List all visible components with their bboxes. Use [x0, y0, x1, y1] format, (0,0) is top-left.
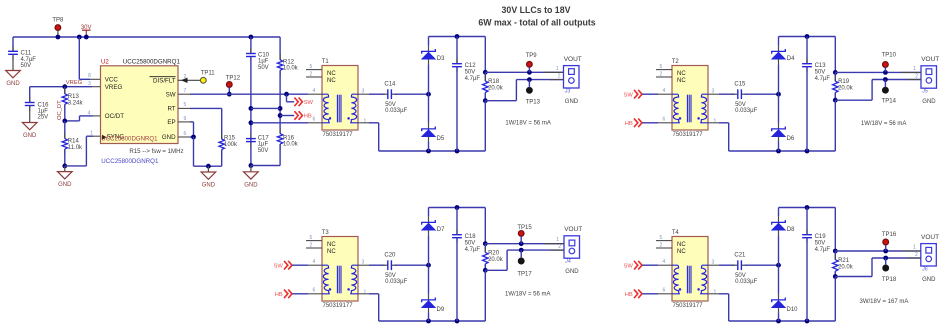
svg-text:100k: 100k: [224, 142, 238, 148]
svg-text:UCC25800DGNRQ1: UCC25800DGNRQ1: [101, 158, 159, 165]
svg-text:GND: GND: [922, 99, 936, 105]
svg-text:GND: GND: [58, 182, 72, 188]
svg-text:SW: SW: [623, 92, 633, 98]
svg-text:D4: D4: [787, 56, 795, 62]
svg-text:2: 2: [915, 252, 918, 258]
svg-text:4.7µF: 4.7µF: [465, 247, 481, 253]
svg-text:5: 5: [660, 235, 663, 241]
svg-text:2: 2: [310, 243, 313, 249]
svg-text:5: 5: [310, 64, 313, 70]
svg-text:C13: C13: [815, 63, 827, 69]
svg-text:1: 1: [364, 118, 367, 124]
svg-text:20.0k: 20.0k: [488, 86, 504, 92]
svg-text:DIS/FLT: DIS/FLT: [153, 78, 176, 85]
svg-text:1: 1: [913, 245, 916, 251]
svg-text:R20: R20: [488, 251, 500, 257]
svg-text:D6: D6: [787, 136, 795, 142]
svg-text:HB: HB: [625, 121, 633, 127]
svg-text:GND: GND: [244, 182, 258, 188]
svg-text:1µF: 1µF: [38, 109, 49, 115]
svg-text:D8: D8: [787, 227, 795, 233]
svg-text:TP15: TP15: [517, 225, 532, 231]
svg-text:3: 3: [362, 259, 365, 265]
svg-text:50V: 50V: [735, 273, 746, 279]
svg-text:1W/18V = 56 mA: 1W/18V = 56 mA: [861, 121, 907, 127]
svg-text:6: 6: [663, 288, 666, 294]
svg-text:TP9: TP9: [526, 53, 538, 59]
svg-text:50V: 50V: [21, 63, 32, 69]
svg-text:NC: NC: [327, 71, 336, 77]
svg-text:NC: NC: [677, 249, 686, 255]
svg-text:50V: 50V: [385, 273, 396, 279]
svg-text:VREG: VREG: [66, 80, 83, 86]
svg-text:HB: HB: [625, 292, 633, 298]
svg-text:TP16: TP16: [882, 232, 897, 238]
svg-text:4.7µF: 4.7µF: [815, 76, 831, 82]
svg-text:50V: 50V: [735, 102, 746, 108]
svg-text:TP8: TP8: [52, 18, 64, 24]
svg-text:3: 3: [712, 88, 715, 94]
svg-text:2: 2: [310, 72, 313, 78]
svg-text:50V: 50V: [385, 102, 396, 108]
svg-text:R15 --> fsw = 1MHz: R15 --> fsw = 1MHz: [129, 148, 183, 155]
svg-text:TP14: TP14: [882, 99, 897, 105]
svg-text:OC/DT: OC/DT: [105, 113, 124, 120]
svg-text:0.033µF: 0.033µF: [385, 108, 407, 114]
svg-text:HB: HB: [275, 292, 283, 298]
svg-text:OC_DT: OC_DT: [57, 100, 63, 120]
svg-text:VCC: VCC: [105, 77, 119, 84]
svg-text:1: 1: [90, 131, 93, 137]
svg-text:C18: C18: [465, 234, 477, 240]
svg-text:NC: NC: [677, 242, 686, 248]
svg-text:SW: SW: [166, 92, 176, 99]
svg-text:3: 3: [712, 259, 715, 265]
svg-text:750319177: 750319177: [323, 303, 354, 309]
svg-text:TP12: TP12: [226, 76, 241, 82]
svg-text:4: 4: [663, 88, 666, 94]
svg-text:VOUT: VOUT: [564, 56, 582, 63]
svg-text:8: 8: [88, 73, 91, 79]
svg-text:GND: GND: [162, 134, 176, 141]
svg-text:GND: GND: [23, 133, 37, 139]
svg-text:GND: GND: [922, 277, 936, 283]
svg-text:4.7µF: 4.7µF: [815, 247, 831, 253]
svg-text:C10: C10: [258, 52, 270, 58]
svg-text:750319177: 750319177: [673, 132, 704, 138]
svg-text:2: 2: [558, 244, 561, 250]
svg-text:J6: J6: [921, 267, 928, 273]
svg-text:D7: D7: [437, 227, 445, 233]
svg-text:1: 1: [714, 289, 717, 295]
svg-text:J4: J4: [564, 259, 571, 265]
svg-text:3: 3: [88, 81, 91, 87]
svg-text:GND: GND: [6, 81, 20, 87]
svg-text:TP11: TP11: [201, 70, 216, 76]
svg-text:T4: T4: [672, 230, 680, 236]
svg-text:4: 4: [88, 110, 91, 116]
svg-text:GND: GND: [565, 99, 579, 105]
svg-text:SW: SW: [304, 100, 314, 106]
svg-text:4: 4: [663, 259, 666, 265]
svg-text:D10: D10: [787, 307, 799, 313]
svg-text:4: 4: [313, 88, 316, 94]
svg-text:D3: D3: [437, 56, 445, 62]
svg-text:20.0k: 20.0k: [838, 264, 854, 270]
svg-text:750319177: 750319177: [323, 132, 354, 138]
svg-text:NC: NC: [677, 71, 686, 77]
svg-text:25V: 25V: [38, 115, 49, 121]
svg-text:NC: NC: [327, 249, 336, 255]
svg-text:VOUT: VOUT: [921, 234, 939, 241]
svg-text:NC: NC: [327, 242, 336, 248]
svg-text:TP10: TP10: [882, 53, 897, 59]
svg-text:1: 1: [556, 237, 559, 243]
svg-text:2: 2: [558, 74, 561, 80]
svg-text:5: 5: [310, 235, 313, 241]
svg-text:10.0k: 10.0k: [283, 142, 299, 148]
svg-text:50V: 50V: [815, 70, 826, 76]
svg-text:C20: C20: [384, 253, 396, 259]
svg-text:R13: R13: [68, 94, 80, 100]
svg-text:UCC25800DGNRQ1: UCC25800DGNRQ1: [101, 136, 158, 143]
svg-text:4.7µF: 4.7µF: [21, 57, 37, 63]
svg-text:5: 5: [660, 64, 663, 70]
svg-text:UCC25800DGNRQ1: UCC25800DGNRQ1: [123, 59, 181, 66]
svg-text:T3: T3: [322, 230, 330, 236]
svg-text:6W max - total of all outputs: 6W max - total of all outputs: [478, 18, 595, 28]
svg-text:RT: RT: [167, 106, 175, 113]
svg-text:NC: NC: [327, 78, 336, 84]
svg-text:R12: R12: [283, 59, 295, 65]
svg-text:EP: EP: [167, 119, 175, 126]
svg-text:3W/18V = 167 mA: 3W/18V = 167 mA: [860, 299, 909, 305]
svg-text:TP17: TP17: [517, 271, 532, 277]
svg-text:HB: HB: [304, 114, 312, 120]
svg-text:6: 6: [663, 117, 666, 123]
svg-text:C16: C16: [38, 102, 50, 108]
svg-text:30V LLCs to 18V: 30V LLCs to 18V: [502, 5, 571, 15]
svg-text:J3: J3: [564, 89, 571, 95]
svg-text:50V: 50V: [258, 148, 269, 154]
svg-text:1W/18V = 56 mA: 1W/18V = 56 mA: [505, 121, 551, 127]
svg-text:1µF: 1µF: [258, 142, 269, 148]
svg-text:20.0k: 20.0k: [838, 86, 854, 92]
svg-text:R19: R19: [838, 79, 850, 85]
svg-text:TP13: TP13: [526, 99, 541, 105]
svg-text:C19: C19: [815, 234, 827, 240]
svg-text:VREG: VREG: [105, 84, 123, 91]
svg-text:R14: R14: [68, 139, 80, 145]
svg-text:GND: GND: [202, 183, 216, 189]
svg-text:6: 6: [313, 117, 316, 123]
svg-text:SW: SW: [623, 263, 633, 269]
svg-text:9: 9: [184, 116, 187, 122]
svg-text:R16: R16: [283, 135, 295, 141]
svg-text:0.033µF: 0.033µF: [735, 279, 757, 285]
svg-text:SW: SW: [273, 263, 283, 269]
svg-text:U2: U2: [101, 59, 109, 65]
svg-text:VOUT: VOUT: [921, 56, 939, 63]
svg-text:2: 2: [184, 74, 187, 80]
svg-text:C17: C17: [258, 135, 270, 141]
svg-text:2: 2: [660, 72, 663, 78]
svg-text:750319177: 750319177: [673, 303, 704, 309]
svg-text:0.033µF: 0.033µF: [385, 279, 407, 285]
svg-text:11.0k: 11.0k: [68, 145, 83, 151]
svg-text:10.0k: 10.0k: [283, 66, 299, 72]
svg-text:3.24k: 3.24k: [68, 100, 84, 106]
svg-text:TP18: TP18: [882, 277, 897, 283]
svg-text:T2: T2: [672, 59, 680, 65]
svg-text:4: 4: [313, 259, 316, 265]
svg-text:D9: D9: [437, 307, 445, 313]
svg-text:T1: T1: [322, 59, 330, 65]
svg-text:50V: 50V: [815, 241, 826, 247]
svg-text:1: 1: [364, 289, 367, 295]
svg-text:R18: R18: [488, 79, 500, 85]
svg-text:C11: C11: [21, 51, 32, 57]
svg-text:20.0k: 20.0k: [488, 257, 504, 263]
svg-text:C14: C14: [384, 82, 396, 88]
svg-text:7: 7: [184, 88, 187, 94]
svg-text:1W/18V = 56 mA: 1W/18V = 56 mA: [505, 292, 551, 298]
svg-text:1: 1: [913, 66, 916, 72]
svg-text:5: 5: [184, 102, 187, 108]
svg-text:D5: D5: [437, 136, 445, 142]
svg-text:1: 1: [714, 118, 717, 124]
svg-text:C12: C12: [465, 63, 477, 69]
svg-text:6: 6: [184, 131, 187, 137]
svg-text:NC: NC: [677, 78, 686, 84]
svg-text:1µF: 1µF: [258, 59, 269, 65]
svg-text:3: 3: [362, 88, 365, 94]
svg-text:50V: 50V: [258, 65, 269, 71]
svg-text:6: 6: [313, 288, 316, 294]
svg-text:1: 1: [556, 66, 559, 72]
svg-text:C21: C21: [734, 253, 746, 259]
svg-text:50V: 50V: [465, 70, 476, 76]
svg-text:50V: 50V: [465, 241, 476, 247]
svg-text:GND: GND: [565, 269, 579, 275]
svg-text:R15: R15: [224, 136, 236, 142]
svg-text:2: 2: [660, 243, 663, 249]
svg-text:VOUT: VOUT: [564, 226, 582, 233]
svg-text:4.7µF: 4.7µF: [465, 76, 481, 82]
svg-text:R21: R21: [838, 258, 850, 264]
svg-text:J5: J5: [921, 89, 928, 95]
svg-text:0.033µF: 0.033µF: [735, 108, 757, 114]
svg-text:C15: C15: [734, 82, 746, 88]
svg-text:2: 2: [915, 74, 918, 80]
